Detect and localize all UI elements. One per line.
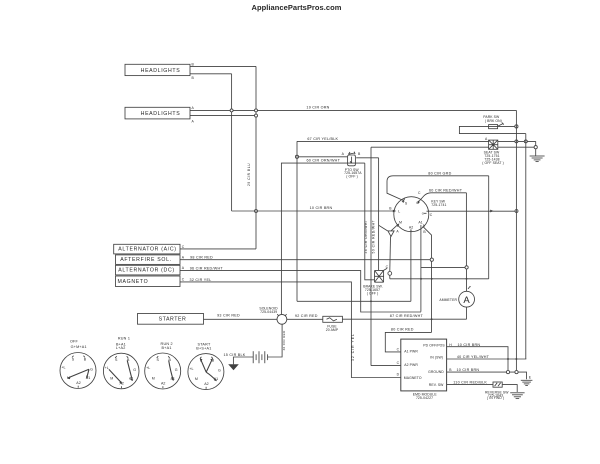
svg-text:50 CIR RED/WHT: 50 CIR RED/WHT bbox=[372, 220, 376, 254]
svg-text:E: E bbox=[529, 375, 532, 379]
headlight HL1 bbox=[125, 64, 190, 75]
svg-text:A2: A2 bbox=[161, 381, 165, 385]
svg-text:B: B bbox=[358, 152, 361, 156]
key position circle OFF bbox=[60, 339, 96, 388]
svg-text:AFTERFIRE SOL.: AFTERFIRE SOL. bbox=[120, 257, 172, 263]
wire A2 row 301 bbox=[297, 300, 411, 302]
wire key M diagonal bbox=[391, 224, 398, 231]
svg-text:92 CIR RED: 92 CIR RED bbox=[295, 314, 318, 318]
svg-text:G: G bbox=[175, 368, 178, 372]
wire 80 CIR RED bbox=[385, 332, 431, 352]
wire PTO out bbox=[356, 157, 378, 159]
svg-text:A: A bbox=[463, 295, 470, 306]
svg-text:REV. SW: REV. SW bbox=[429, 383, 444, 387]
triangle connector key A bbox=[388, 231, 394, 237]
svg-text:10 CIR BRN: 10 CIR BRN bbox=[458, 343, 481, 347]
svg-text:46 CIR RED: 46 CIR RED bbox=[282, 330, 286, 350]
ground G4 (reverse) bbox=[510, 393, 524, 399]
svg-text:A: A bbox=[396, 229, 399, 233]
svg-text:40 CIR YEL/WHT: 40 CIR YEL/WHT bbox=[457, 355, 490, 359]
junction circle (256,110.4) bbox=[255, 109, 258, 112]
svg-text:B+S+A1: B+S+A1 bbox=[196, 346, 211, 350]
wire 110 CIR RED/BLK bbox=[447, 385, 518, 392]
svg-text:ALTERNATOR (DC): ALTERNATOR (DC) bbox=[118, 267, 175, 273]
wire brake out row bbox=[390, 275, 489, 279]
wire 32 CIR YEL bbox=[180, 282, 401, 378]
label PARK SW (BRK ON) bbox=[483, 115, 502, 123]
svg-text:A2: A2 bbox=[76, 381, 80, 385]
junction circle (516.4,141.4) bbox=[515, 140, 518, 143]
svg-text:80 CIR RED: 80 CIR RED bbox=[391, 327, 414, 331]
svg-text:B: B bbox=[423, 230, 426, 234]
svg-text:M: M bbox=[110, 377, 113, 381]
starter box STARTER bbox=[138, 314, 204, 325]
wire 92 CIR RED bbox=[287, 318, 323, 320]
arrowhead 10 CIR BRN connector bbox=[393, 210, 396, 213]
svg-text:B: B bbox=[389, 207, 392, 211]
key position circle RUN 1 bbox=[103, 336, 139, 389]
ground G2 battery (filled) bbox=[228, 364, 239, 370]
wire HL1-B top bbox=[190, 65, 256, 67]
junction circle (256,115.6) bbox=[255, 114, 258, 117]
wire EMD A2 pin row bbox=[371, 365, 401, 367]
svg-text:G: G bbox=[422, 212, 424, 216]
pto switch PTO SW symbol bbox=[348, 152, 356, 166]
wire H 10 CIR BRN bbox=[447, 347, 508, 372]
seat switch SEAT SW symbol bbox=[489, 140, 498, 149]
svg-text:93 CIR RED: 93 CIR RED bbox=[217, 314, 240, 318]
fuse FUSE 20 AMP bbox=[323, 316, 343, 322]
junction circle (516.5,372.1) bbox=[515, 371, 518, 374]
junction dot (431.7,278.8) bbox=[431, 278, 433, 280]
key letters S G L G M A1 A2 bbox=[398, 201, 422, 230]
wire 96 CIR RED/WHT bbox=[180, 271, 421, 312]
svg-text:OFF: OFF bbox=[70, 339, 79, 343]
label FUSE 20 AMP bbox=[326, 324, 339, 332]
solenoid SOLENOID circle bbox=[277, 314, 287, 324]
arrowhead S lead bbox=[401, 201, 404, 203]
svg-text:( OFF SEAT ): ( OFF SEAT ) bbox=[482, 161, 504, 165]
svg-text:AMMETER: AMMETER bbox=[439, 298, 457, 302]
svg-text:725-1741: 725-1741 bbox=[431, 203, 446, 207]
wire 80 CIR GRD bbox=[393, 175, 489, 177]
headlight HL2 bbox=[125, 107, 190, 119]
wire A1 row 267 bbox=[421, 266, 467, 268]
svg-text:M: M bbox=[152, 377, 155, 381]
wire key S lead bbox=[387, 176, 404, 201]
label SEAT SW 725-1751 725-1438 (OFF SEAT) bbox=[482, 151, 504, 166]
svg-text:19 CIR ORN: 19 CIR ORN bbox=[306, 106, 329, 110]
wire 67/60 bus V3 bbox=[296, 141, 298, 301]
wire seat bottom row bbox=[371, 146, 534, 148]
svg-text:A1 PWR: A1 PWR bbox=[404, 349, 418, 353]
svg-text:G: G bbox=[218, 368, 221, 372]
wire vertical 29 CIR BLU V2 bbox=[255, 66, 257, 249]
junction circle (297,156.8) bbox=[295, 155, 298, 158]
svg-text:AppliancePartsPros.com: AppliancePartsPros.com bbox=[252, 3, 342, 12]
svg-text:MAGNETO: MAGNETO bbox=[404, 376, 422, 380]
svg-text:A: A bbox=[485, 137, 488, 141]
svg-text:MAGNETO: MAGNETO bbox=[118, 279, 149, 285]
svg-text:C: C bbox=[386, 265, 389, 269]
junction dot (508,359) bbox=[507, 358, 509, 360]
ground G3 (E) bbox=[521, 380, 533, 385]
svg-text:C: C bbox=[397, 361, 400, 365]
junction circle (516.5,211) bbox=[515, 210, 518, 213]
svg-text:C: C bbox=[182, 278, 185, 282]
svg-text:( OFF ): ( OFF ) bbox=[367, 291, 379, 295]
junction circle (535.7,147.2) bbox=[534, 146, 537, 149]
wire vertical 29 CIR BLU branch V1 bbox=[231, 74, 233, 211]
svg-text:60 CIR RED/WHT: 60 CIR RED/WHT bbox=[429, 188, 463, 192]
ground G1 (seat) bbox=[530, 156, 545, 162]
svg-text:IN (SW): IN (SW) bbox=[430, 356, 443, 360]
svg-text:+L: +L bbox=[189, 367, 193, 371]
junction circle (431.8,259.7) bbox=[430, 258, 433, 261]
wire key A1 vertical V12 bbox=[420, 225, 422, 312]
svg-text:M: M bbox=[195, 377, 198, 381]
svg-text:60 CIR ORN/WHT: 60 CIR ORN/WHT bbox=[306, 158, 340, 162]
svg-text:10 CIR BRN: 10 CIR BRN bbox=[310, 206, 333, 210]
wire vertical 60RED/WHT to ammeter V14 bbox=[465, 193, 467, 292]
svg-text:L+A2: L+A2 bbox=[116, 346, 126, 350]
park switch PARK SW symbol bbox=[489, 123, 504, 129]
wire 67 CIR YEL/BLK bbox=[297, 140, 536, 142]
svg-text:20 AMP: 20 AMP bbox=[326, 328, 339, 332]
svg-text:S: S bbox=[156, 358, 159, 362]
wire vertical seat-bottom V8 bbox=[370, 147, 372, 365]
junction dot (431.6,319.2) bbox=[431, 318, 433, 320]
wire alternator AC to 29BLU bbox=[180, 248, 256, 250]
svg-text:98 CIR RED: 98 CIR RED bbox=[190, 256, 213, 260]
wire 19 CIR ORN bbox=[190, 109, 516, 111]
svg-text:G+M+A1: G+M+A1 bbox=[71, 345, 87, 349]
svg-text:29 CIR BLU: 29 CIR BLU bbox=[247, 163, 251, 186]
wire vertical 80GRD-brake V15 bbox=[488, 176, 490, 279]
reverse switch REVERSE SW symbol bbox=[493, 382, 502, 387]
wire 60 CIR ORN/WHT bbox=[299, 156, 348, 158]
svg-text:87 CIR RED/WHT: 87 CIR RED/WHT bbox=[390, 314, 424, 318]
svg-text:A2: A2 bbox=[409, 225, 413, 229]
arrowhead C row connector bbox=[490, 210, 493, 213]
svg-text:M: M bbox=[399, 220, 402, 224]
svg-text:S: S bbox=[72, 357, 75, 361]
svg-text:A: A bbox=[192, 106, 195, 110]
svg-text:A2 PWR: A2 PWR bbox=[404, 363, 418, 367]
wire key C row bbox=[427, 210, 517, 212]
svg-text:STARTER: STARTER bbox=[159, 317, 187, 323]
label BRAKE SW. 725-1657 (OFF) bbox=[363, 284, 383, 295]
EMD module box 725-04227 bbox=[401, 339, 447, 391]
svg-text:C: C bbox=[430, 213, 433, 217]
svg-text:B: B bbox=[192, 76, 195, 80]
junction circle (256,211) bbox=[255, 210, 258, 213]
wire seat to ground bbox=[535, 141, 537, 156]
label KEY SW 725-1741 bbox=[431, 199, 446, 207]
svg-text:A: A bbox=[182, 266, 185, 270]
arrowhead C-top bbox=[417, 200, 420, 203]
svg-text:80 CIR GRD: 80 CIR GRD bbox=[428, 172, 451, 176]
park switch loop wire bbox=[459, 126, 525, 133]
key terminal ticks bbox=[397, 199, 426, 232]
wire battery drop V5 bbox=[268, 324, 283, 357]
svg-text:H: H bbox=[449, 343, 452, 347]
magneto box MAGNETO bbox=[116, 276, 181, 287]
alternator box ALTERNATOR (DC) bbox=[116, 265, 181, 275]
alternator box ALTERNATOR (A/C) bbox=[114, 244, 180, 254]
wire 60 CIR RED/WHT bbox=[431, 192, 466, 194]
wire 93 CIR RED bbox=[204, 318, 278, 320]
ammeter AMMETER bbox=[459, 286, 475, 307]
svg-text:D: D bbox=[397, 373, 400, 377]
svg-text:96 CIR RED/WHT: 96 CIR RED/WHT bbox=[190, 266, 224, 270]
junction dot (421,278.8) bbox=[420, 278, 422, 280]
svg-text:110 CIR RED/BLK: 110 CIR RED/BLK bbox=[453, 381, 487, 385]
wire vertical PTO to brake V9 bbox=[378, 158, 380, 271]
svg-text:( BRK ON): ( BRK ON) bbox=[485, 119, 502, 123]
svg-text:RUN 1: RUN 1 bbox=[118, 336, 130, 340]
key position circle START bbox=[188, 342, 224, 389]
svg-text:725-04227: 725-04227 bbox=[416, 396, 433, 400]
battery BT1 bbox=[253, 351, 267, 363]
label SOLENOID 725-04439 bbox=[259, 306, 278, 313]
wire B 10 CIR BRN bbox=[447, 372, 527, 379]
afterfire box AFTERFIRE SOL. bbox=[116, 255, 181, 265]
svg-text:A: A bbox=[182, 256, 185, 260]
svg-text:G: G bbox=[416, 201, 419, 205]
junction dot (466.5,278.8) bbox=[466, 278, 468, 280]
svg-text:10 CIR BRN: 10 CIR BRN bbox=[457, 368, 480, 372]
label EMD MODULE 725-04227 bbox=[413, 393, 438, 401]
svg-text:C: C bbox=[397, 347, 400, 351]
wire 10 CIR BRN bbox=[232, 210, 394, 212]
svg-text:15 CIR BLK: 15 CIR BLK bbox=[224, 353, 246, 357]
junction circle (508,372.1) bbox=[506, 371, 509, 374]
junction circle brake C (389.8,273.4) bbox=[388, 272, 392, 276]
wire ammeter riser bbox=[466, 307, 468, 319]
svg-text:L: L bbox=[398, 210, 400, 214]
wire triangle to brake circle V10 bbox=[389, 237, 392, 272]
svg-text:C: C bbox=[182, 245, 185, 249]
wire brake-in V7 bbox=[365, 163, 375, 280]
label PTO SW 725-1657A (OFF) bbox=[344, 168, 362, 179]
junction circle (466.6,267.4) bbox=[465, 266, 468, 269]
svg-text:67 CIR YEL/BLK: 67 CIR YEL/BLK bbox=[307, 137, 338, 141]
junction circle (525.8,141.4) bbox=[524, 140, 527, 143]
svg-text:GROUND: GROUND bbox=[428, 370, 444, 374]
junction circle park (516.4,126.4) bbox=[515, 125, 518, 128]
svg-text:32 CIR YEL: 32 CIR YEL bbox=[190, 278, 212, 282]
wire 98 CIR RED bbox=[180, 259, 432, 261]
wire key A2 vertical V11 bbox=[410, 229, 412, 301]
svg-text:B+A1: B+A1 bbox=[162, 346, 172, 350]
brake switch BRAKE SW symbol bbox=[375, 268, 388, 282]
svg-text:G: G bbox=[90, 367, 93, 371]
wire 87 CIR RED/WHT bbox=[342, 318, 466, 320]
wire battery to ground bbox=[233, 357, 253, 364]
junction dot (371,301.3) bbox=[370, 300, 372, 302]
wire solenoid riser V4 + stub bbox=[281, 163, 364, 314]
svg-text:A1: A1 bbox=[418, 220, 422, 224]
wire key C-top diagonal bbox=[418, 193, 431, 203]
wire vertical park loop bus V17 bbox=[525, 134, 527, 359]
svg-text:A: A bbox=[342, 152, 345, 156]
svg-text:( OFF ): ( OFF ) bbox=[346, 175, 358, 179]
svg-text:A: A bbox=[192, 120, 195, 124]
svg-text:( IN FWD ): ( IN FWD ) bbox=[487, 396, 504, 400]
wire 40 CIR YEL/WHT bbox=[447, 358, 527, 360]
svg-text:HEADLIGHTS: HEADLIGHTS bbox=[141, 68, 181, 74]
label REVERSE SW 725-1643 (IN FWD) bbox=[485, 391, 509, 401]
svg-text:G: G bbox=[133, 368, 136, 372]
svg-text:A2: A2 bbox=[204, 382, 208, 386]
svg-text:HEADLIGHTS: HEADLIGHTS bbox=[141, 111, 181, 117]
wire vertical 19ORN bus V16 bbox=[515, 110, 517, 372]
svg-text:C: C bbox=[418, 191, 421, 195]
svg-text:ALTERNATOR (A/C): ALTERNATOR (A/C) bbox=[118, 247, 176, 253]
svg-text:32 CIR YEL: 32 CIR YEL bbox=[351, 333, 355, 361]
wire key A diagonal bbox=[379, 225, 388, 231]
svg-text:+L: +L bbox=[61, 366, 65, 370]
wire HL1-B bottom bbox=[190, 73, 232, 75]
svg-text:B: B bbox=[449, 368, 452, 372]
junction dot (516.4,359) bbox=[515, 358, 517, 360]
svg-text:S: S bbox=[405, 202, 408, 206]
key position circle RUN 2 bbox=[145, 342, 181, 389]
junction circle (231.6,110.4) bbox=[230, 109, 233, 112]
key switch KEY SW circle bbox=[394, 197, 429, 232]
wire key B diagonal + V13 bbox=[423, 226, 432, 332]
svg-text:+L: +L bbox=[146, 366, 150, 370]
svg-text:+L: +L bbox=[105, 366, 109, 370]
svg-text:S: S bbox=[115, 358, 118, 362]
svg-text:PD OFF/POS: PD OFF/POS bbox=[423, 343, 445, 347]
wire HL2-A bottom bbox=[190, 115, 256, 117]
watermark bbox=[252, 3, 342, 12]
svg-text:B: B bbox=[84, 357, 87, 361]
svg-text:725-04439: 725-04439 bbox=[260, 310, 277, 314]
